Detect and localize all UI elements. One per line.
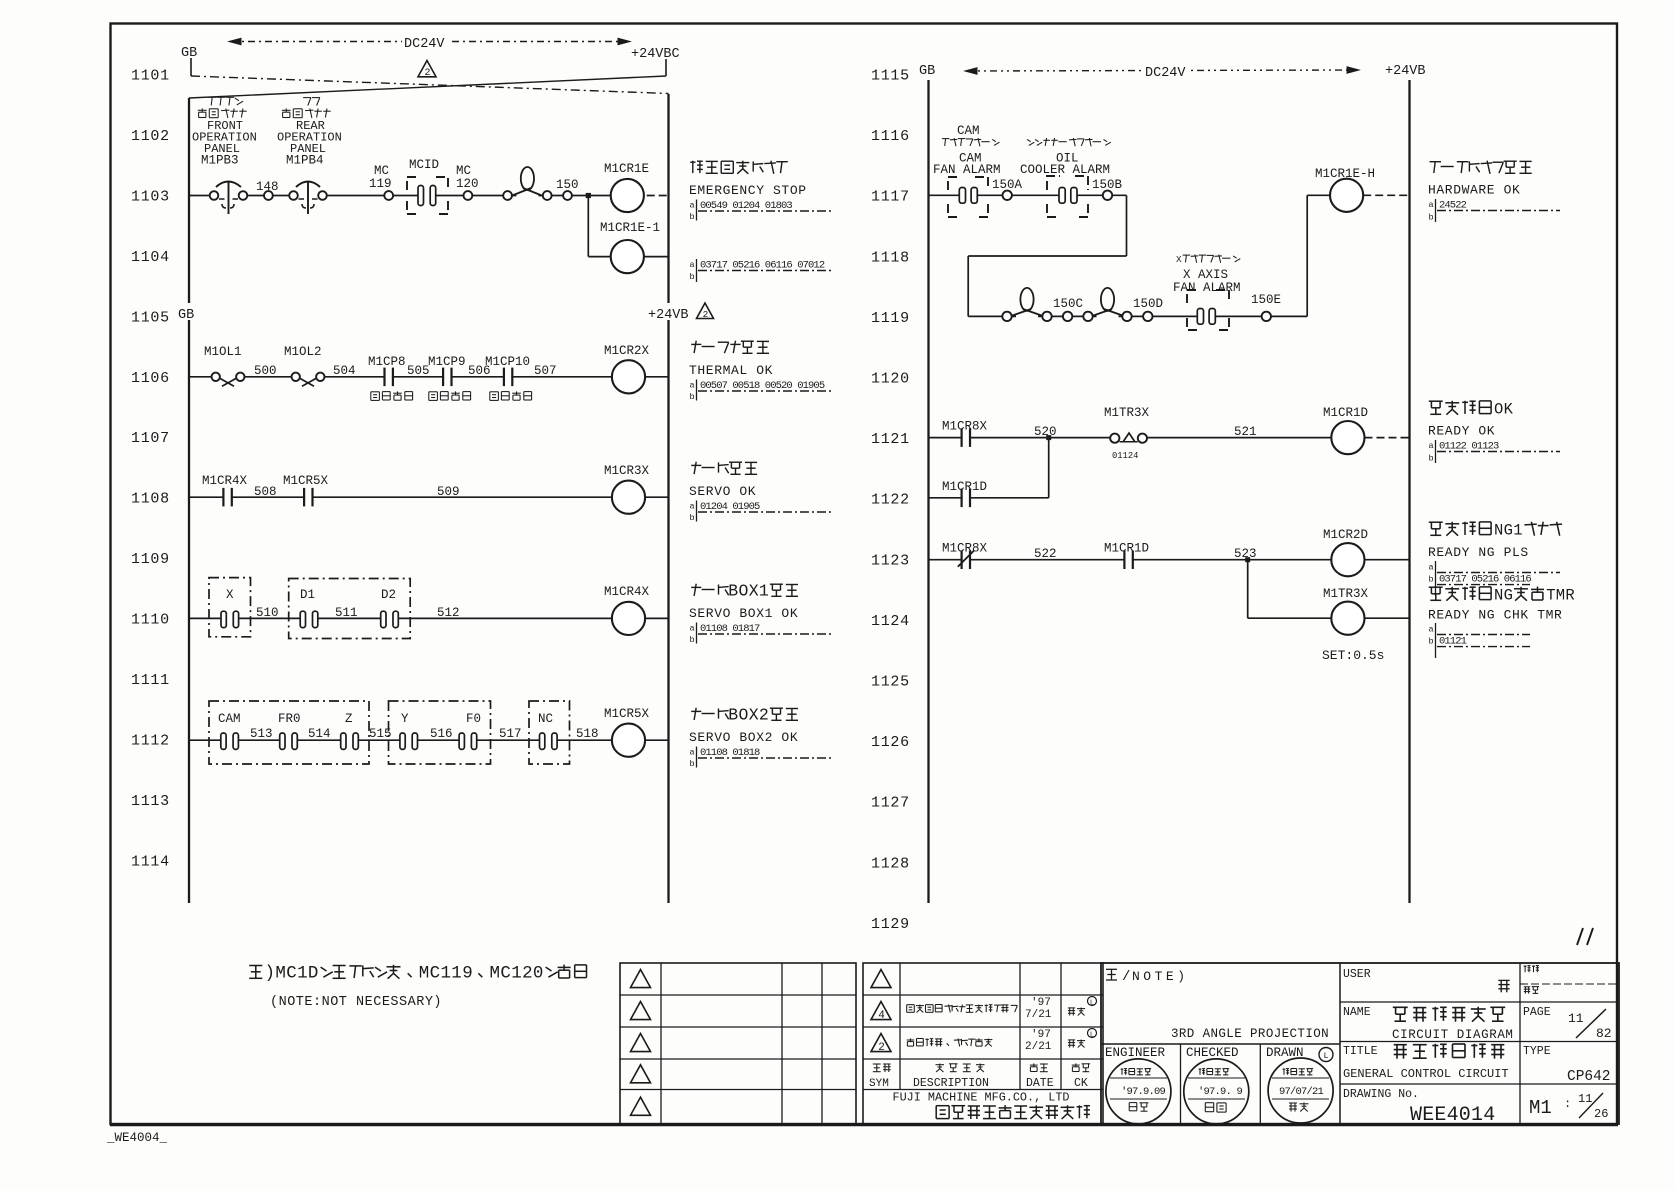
svg-text:1115: 1115 [871,68,910,85]
svg-text:a: a [690,201,695,211]
svg-text:4: 4 [878,1010,885,1022]
inductor loop 150C-2 [1083,288,1131,321]
contact M1CR1D (1122) [942,480,987,507]
svg-text:WEE4014: WEE4014 [1410,1104,1495,1127]
svg-text:b: b [690,513,695,523]
svg-text:11: 11 [1568,1011,1584,1026]
node 508 [254,485,277,499]
svg-text:1: 1 [511,963,522,983]
svg-text:CK: CK [1074,1077,1088,1090]
svg-text:D1: D1 [300,588,315,602]
svg-text:M1OL1: M1OL1 [204,345,242,359]
svg-text:D2: D2 [381,588,396,602]
label FRONT OPERATION PANEL M1PB3 [192,97,257,167]
junction 1103 [586,193,591,198]
timer coil M1TR3X [1322,587,1410,663]
svg-text:TITLE: TITLE [1343,1045,1378,1058]
svg-text:2: 2 [522,963,533,983]
svg-text:1124: 1124 [871,613,910,630]
svg-text:MC: MC [374,164,389,178]
node 509 [437,485,460,499]
svg-text:2: 2 [878,1042,885,1054]
svg-text:521: 521 [1234,425,1257,439]
relay coil M1CR4X [604,585,669,635]
svg-text:M: M [1556,586,1565,604]
svg-text:2: 2 [425,67,431,78]
svg-text:PAGE: PAGE [1523,1006,1551,1019]
svg-text:SERVO OK: SERVO OK [689,484,756,499]
svg-text:b: b [690,392,695,402]
contact M1CR8X (1121) [942,420,988,447]
wire right rail (left ladder) [667,94,669,903]
svg-text:516: 516 [430,727,453,741]
contact CAM FAN ALARM [948,177,988,217]
handwritten sheet number 11 [1577,928,1593,945]
node 520 [1034,425,1057,439]
svg-text:1105: 1105 [131,309,170,326]
svg-text:COOLER ALARM: COOLER ALARM [1020,163,1110,177]
node 150B [1092,178,1123,200]
svg-text:1: 1 [297,963,308,983]
node 150D [1133,297,1163,321]
svg-text:1125: 1125 [871,674,910,691]
svg-text:1127: 1127 [871,795,910,812]
svg-text:'97: '97 [1031,1029,1051,1041]
servo box NC [529,701,570,764]
wire 1101 crossover [189,58,669,98]
svg-text:509: 509 [437,485,460,499]
svg-text:7/21: 7/21 [1025,1009,1052,1021]
svg-text:M1CR8X: M1CR8X [942,420,988,434]
node 500 [254,364,277,378]
svg-text:M1PB4: M1PB4 [286,154,324,168]
pushbutton M1PB4 [289,182,327,215]
label HARDWARE OK [1428,161,1560,223]
label X AXIS FAN ALARM [1173,254,1241,295]
wire 1119 up to coil [1307,195,1330,316]
revision table left (empty) [620,963,856,1124]
drawing no cell [1343,1088,1495,1127]
svg-text:11: 11 [1578,1092,1592,1106]
svg-text:1126: 1126 [871,734,910,751]
svg-text:(NOTE:NOT NECESSARY): (NOTE:NOT NECESSARY) [270,995,442,1010]
svg-text:M1CR1E: M1CR1E [604,162,649,176]
svg-text:03717 05216 06116: 03717 05216 06116 [1439,574,1531,586]
label SERVO OK [689,462,833,523]
svg-text:K: K [1504,400,1514,418]
svg-text:M: M [419,963,430,983]
svg-text:2/21: 2/21 [1025,1041,1052,1053]
svg-text:514: 514 [308,727,331,741]
junction 1123 [1245,557,1250,562]
svg-text:1: 1 [441,963,452,983]
note cell [1106,969,1329,1041]
node 523 [1234,547,1257,561]
svg-text:X: X [749,582,759,601]
svg-text:1: 1 [1513,521,1522,539]
contact M1CP8 [368,355,413,400]
svg-text:L: L [1323,1051,1328,1061]
svg-text:FUJI MACHINE MFG.CO., LTD: FUJI MACHINE MFG.CO., LTD [893,1091,1070,1105]
svg-text:M1CR5X: M1CR5X [283,474,329,488]
svg-text:a: a [690,381,695,391]
sheet cell M1 [1529,1092,1608,1121]
bus DC24V top arrow line [229,32,630,52]
wire rung 1121 [929,437,1332,439]
node 518 [576,727,599,741]
svg-text:'97.9. 9: '97.9. 9 [1198,1086,1243,1098]
node GB 1105 [176,303,200,323]
drawn stamp [1266,1046,1333,1123]
node GB top-left [181,46,197,61]
contact M1CR5X [283,474,329,506]
svg-text:CAM: CAM [218,712,241,726]
svg-text:1103: 1103 [131,188,170,205]
svg-text:C: C [286,963,297,983]
svg-text:M1TR3X: M1TR3X [1323,587,1369,601]
svg-text:1113: 1113 [131,793,170,810]
svg-text:518: 518 [576,727,599,741]
relay coil M1CR2D [1323,528,1410,576]
svg-text:M1CR1D: M1CR1D [1323,406,1368,420]
node 522 [1034,547,1057,561]
svg-text:97/07/21: 97/07/21 [1279,1086,1324,1098]
servo box D1 D2 [289,579,411,639]
svg-text:2: 2 [759,706,769,725]
engineer stamp [1105,1046,1171,1124]
svg-text:a: a [1429,441,1434,451]
svg-text:GENERAL CONTROL CIRCUIT: GENERAL CONTROL CIRCUIT [1343,1067,1509,1081]
svg-text:1128: 1128 [871,855,910,872]
svg-text:1110: 1110 [131,612,170,629]
svg-text:C: C [500,963,511,983]
svg-text:513: 513 [250,727,273,741]
svg-text:512: 512 [437,606,460,620]
svg-text:SERVO BOX2 OK: SERVO BOX2 OK [689,730,798,745]
svg-text:M1: M1 [1529,1097,1552,1119]
svg-text:'97: '97 [1031,997,1051,1009]
relay coil M1CR1E [604,162,669,212]
svg-text:USER: USER [1343,968,1371,981]
node 150C [1053,297,1083,321]
svg-text:M1CR4X: M1CR4X [202,474,248,488]
svg-text:ENGINEER: ENGINEER [1105,1046,1166,1060]
svg-text:/: / [1122,969,1130,985]
svg-text:520: 520 [1034,425,1057,439]
svg-text:150E: 150E [1251,293,1281,307]
label READY NG CHK TMR [1428,586,1575,658]
contact M1CR1D (1123) [1104,542,1149,569]
svg-text:B: B [728,582,738,601]
svg-text:1102: 1102 [131,128,170,145]
svg-text:b: b [1429,575,1434,585]
contact M1CR4X [202,474,248,506]
name cell [1343,1006,1514,1042]
svg-text:O: O [739,706,749,725]
node 150A [992,178,1023,200]
label WE4004 [106,1131,168,1145]
svg-text:SET:0.5s: SET:0.5s [1322,648,1384,663]
servo box CAM FR0 Z [209,701,369,764]
node 511 [335,606,358,620]
svg-text:C: C [430,963,441,983]
svg-text:M1CR1D: M1CR1D [1104,542,1149,556]
left ladder line numbers 1101-1114 [131,68,170,871]
svg-text:D: D [308,963,319,983]
svg-text:O: O [739,582,749,601]
node 512 [437,606,460,620]
svg-text:522: 522 [1034,547,1057,561]
node 505 [407,364,430,378]
junction 1121 [1046,435,1051,440]
svg-text:a: a [690,624,695,634]
svg-text:M1TR3X: M1TR3X [1104,406,1150,420]
node 514 [308,727,331,741]
node 150E [1251,293,1281,321]
node GB 1115 [919,64,935,79]
node 515 [369,727,392,741]
svg-text:THERMAL OK: THERMAL OK [689,363,773,378]
svg-text:a: a [1429,624,1434,634]
svg-text:M: M [275,963,286,983]
title cell [1343,1044,1509,1081]
svg-text:L: L [1090,1000,1094,1008]
svg-text:L: L [1090,1032,1094,1040]
label READY NG PLS [1428,521,1562,596]
contact OIL COOLER ALARM [1047,176,1088,217]
label 1104 cross-ref [690,259,834,282]
contact M1CR8X NC (1123) [942,542,988,569]
pushbutton M1PB3 [210,182,248,215]
wire 1117 to 1119 [968,195,1126,316]
svg-text:CHECKED: CHECKED [1186,1046,1239,1060]
svg-text:504: 504 [333,364,356,378]
svg-text:03717 05216 06116 07012: 03717 05216 06116 07012 [700,260,825,272]
svg-text:1107: 1107 [131,430,170,447]
label EMERGENCY STOP [689,161,833,222]
svg-text:G: G [1504,586,1513,604]
svg-text:M1CR2D: M1CR2D [1323,528,1368,542]
svg-text:1122: 1122 [871,492,910,509]
svg-text:120: 120 [456,177,479,191]
wire rung 1123 [929,559,1332,561]
svg-text:119: 119 [369,177,392,191]
svg-text:Y: Y [401,712,409,726]
svg-text:M1CP10: M1CP10 [485,355,530,369]
wire rung 1110 [189,617,612,619]
svg-text:0: 0 [533,963,544,983]
svg-text:M1CR1D: M1CR1D [942,480,987,494]
svg-text:T: T [1546,586,1555,604]
node 516 [430,727,453,741]
svg-text:1: 1 [759,582,769,601]
node MC 119 [369,164,393,200]
node +24VB 1105 [647,303,714,323]
svg-text:DRAWING No.: DRAWING No. [1343,1088,1419,1101]
svg-text:1114: 1114 [131,853,170,870]
svg-text:1108: 1108 [131,491,170,508]
svg-text:F0: F0 [466,712,481,726]
label CAM FAN ALARM [933,124,1001,177]
wire branch to M1CR1E-1 [588,196,610,257]
svg-text:M1PB3: M1PB3 [201,154,239,168]
svg-text:FAN ALARM: FAN ALARM [933,163,1001,177]
svg-text:HARDWARE OK: HARDWARE OK [1428,182,1520,197]
relay coil M1CR2X [604,344,669,393]
svg-text:CAM: CAM [957,124,980,138]
label REAR OPERATION PANEL M1PB4 [277,98,342,168]
svg-text:O: O [1494,400,1503,418]
thermal overload M1OL2 [284,345,324,386]
label SERVO BOX2 OK [689,706,833,770]
node 506 [468,364,491,378]
svg-text:X: X [749,706,759,725]
svg-text:150C: 150C [1053,297,1083,311]
svg-text:+24VB: +24VB [1385,64,1426,79]
node 148 [256,180,279,200]
svg-text:1121: 1121 [871,431,910,448]
class cells [1524,965,1539,993]
bus DC24V right arrow line [965,61,1359,81]
svg-text:01124: 01124 [1112,451,1138,461]
wire rung 1112 [189,739,612,741]
svg-text:M1CR1E-1: M1CR1E-1 [600,221,660,235]
svg-text:1119: 1119 [871,310,910,327]
svg-text:READY OK: READY OK [1428,423,1495,438]
svg-text:R: R [1565,586,1574,604]
svg-text:MCID: MCID [409,158,439,172]
user cell [1343,968,1510,992]
wire rung 1103 [189,195,611,197]
svg-text:1: 1 [451,963,462,983]
svg-text:517: 517 [499,727,522,741]
svg-text:NAME: NAME [1343,1006,1371,1019]
wire rung 1119 [968,315,1307,317]
revision table right [863,963,1103,1124]
svg-text:M: M [490,963,501,983]
node 507 [534,364,557,378]
timer contact M1TR3X [1104,406,1150,461]
svg-text:+24VBC: +24VBC [631,47,680,62]
type cell [1523,1045,1611,1085]
svg-text:150: 150 [556,178,579,192]
svg-text:01121: 01121 [1439,636,1467,648]
svg-text:9: 9 [462,963,473,983]
svg-text:DC24V: DC24V [1145,66,1186,81]
svg-text:b: b [1429,213,1434,223]
svg-text:READY NG CHK TMR: READY NG CHK TMR [1428,607,1562,622]
svg-text:G: G [1504,521,1513,539]
svg-text:a: a [690,502,695,512]
svg-text:M1OL2: M1OL2 [284,345,322,359]
wire left rail (left ladder) [188,98,190,903]
svg-text:M1CR4X: M1CR4X [604,585,650,599]
svg-text:X: X [226,588,234,602]
svg-text:150D: 150D [1133,297,1163,311]
svg-text:b: b [1429,454,1434,464]
wire right rail (right ladder) [1408,80,1410,903]
svg-text:NOTE): NOTE) [1132,969,1189,984]
svg-text:M1CR3X: M1CR3X [604,464,650,478]
label THERMAL OK [689,341,833,402]
svg-text:Z: Z [345,712,353,726]
thermal overload M1OL1 [204,345,245,386]
node 521 [1234,425,1257,439]
svg-text:EMERGENCY STOP: EMERGENCY STOP [689,183,807,198]
svg-text:M1CR5X: M1CR5X [604,707,650,721]
node 517 [499,727,522,741]
svg-text:B: B [728,706,738,725]
node 150 [556,178,579,200]
wire rung 1108 [189,496,612,498]
svg-text:'97.9.09: '97.9.09 [1121,1086,1166,1098]
contact X AXIS FAN ALARM [1187,290,1229,330]
svg-text:1123: 1123 [871,552,910,569]
svg-text:1109: 1109 [131,551,170,568]
contact M1CP9 [428,355,471,400]
svg-text:): ) [265,963,276,983]
svg-text:READY NG PLS: READY NG PLS [1428,545,1529,560]
svg-text:a: a [690,748,695,758]
svg-text:SYM: SYM [869,1078,889,1090]
svg-text:N: N [1494,521,1503,539]
svg-text:FR0: FR0 [278,712,301,726]
relay coil M1CR1E-H [1315,167,1410,212]
svg-text:M1CP9: M1CP9 [428,355,466,369]
note MC1D text [249,963,586,1010]
inductor loop 1103 [503,167,551,200]
svg-text::: : [1564,1097,1571,1111]
svg-text:MC: MC [456,164,471,178]
node 504 [333,364,356,378]
svg-text:511: 511 [335,606,358,620]
svg-text:507: 507 [534,364,557,378]
relay coil M1CR1D (1121) [1323,406,1410,454]
svg-text:_WE4004_: _WE4004_ [106,1131,168,1145]
svg-text:+24VB: +24VB [648,308,689,323]
svg-text:CIRCUIT DIAGRAM: CIRCUIT DIAGRAM [1392,1028,1514,1042]
svg-text:NC: NC [538,712,553,726]
label OIL COOLER ALARM [1020,138,1111,177]
relay coil M1CR1E-1 [600,221,669,273]
svg-text:1116: 1116 [871,128,910,145]
svg-text:X AXIS: X AXIS [1183,268,1228,282]
svg-text:M1CP8: M1CP8 [368,355,406,369]
svg-text:1112: 1112 [131,733,170,750]
svg-text:X: X [1176,254,1182,265]
svg-text:GB: GB [181,46,197,61]
node +24VB 1115 [1385,64,1426,79]
svg-text:DESCRIPTION: DESCRIPTION [913,1077,989,1090]
svg-text:b: b [1429,637,1434,647]
svg-text:M1CR8X: M1CR8X [942,542,988,556]
page cell [1523,1006,1612,1041]
node +24VBC top-right [631,47,680,62]
inductor loop 150C-1 [1002,288,1051,321]
svg-text:1129: 1129 [871,916,910,933]
svg-text:505: 505 [407,364,430,378]
node MC 120 [456,164,479,200]
contactor MCID [407,158,448,214]
svg-text:508: 508 [254,485,277,499]
wire rung 1106 [189,376,612,378]
svg-text:2: 2 [703,309,709,320]
label READY OK [1428,400,1560,463]
svg-text:GB: GB [919,64,935,79]
wire rung 1122 [929,440,1049,498]
node 513 [250,727,273,741]
svg-text:1117: 1117 [871,189,910,206]
